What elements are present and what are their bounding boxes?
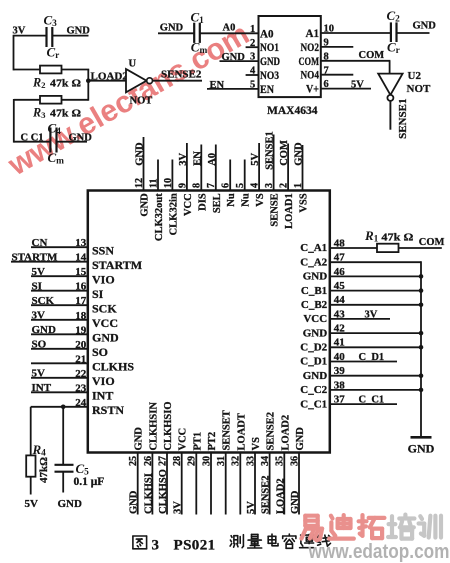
svg-text:GND: GND — [160, 22, 184, 33]
pin 37 wire C_C1 — [330, 403, 397, 405]
svg-text:24: 24 — [75, 397, 87, 409]
svg-text:SCK: SCK — [32, 295, 55, 307]
pin 8 wire — [200, 145, 202, 192]
svg-text:U2: U2 — [408, 70, 422, 82]
svg-text:3V: 3V — [178, 153, 189, 166]
svg-text:INT: INT — [32, 382, 52, 394]
wire A1 — [321, 32, 391, 34]
svg-text:5V: 5V — [246, 501, 257, 514]
pin 22 wire — [31, 377, 88, 379]
svg-text:12: 12 — [134, 178, 145, 188]
IC U3 MAX4634 — [259, 16, 321, 97]
svg-text:C C1: C C1 — [21, 133, 44, 144]
pin 16 wire — [31, 290, 88, 292]
wire — [62, 69, 90, 71]
svg-text:SENSE2: SENSE2 — [261, 475, 272, 514]
svg-text:C_D1: C_D1 — [359, 352, 385, 363]
svg-text:5V: 5V — [32, 368, 46, 380]
pin 2 wire — [287, 144, 289, 192]
svg-text:3: 3 — [264, 183, 275, 188]
svg-text:SENSE2: SENSE2 — [266, 412, 277, 451]
pin 4 NO3 — [246, 74, 259, 76]
svg-text:C5: C5 — [76, 461, 90, 478]
svg-text:15: 15 — [75, 266, 87, 278]
svg-text:C1: C1 — [191, 10, 205, 27]
svg-text:Nu: Nu — [241, 193, 252, 207]
wire COM — [321, 60, 391, 62]
pin 15 wire — [31, 275, 88, 277]
caption 图3 PS021 — [133, 536, 216, 554]
svg-text:GND: GND — [32, 324, 57, 336]
wire — [14, 69, 41, 71]
svg-text:VCC: VCC — [303, 313, 327, 325]
svg-text:SO: SO — [32, 339, 47, 351]
svg-text:GND: GND — [260, 56, 280, 68]
svg-text:C_C1: C_C1 — [359, 395, 385, 406]
svg-text:PT1: PT1 — [192, 432, 203, 451]
svg-text:SO: SO — [92, 345, 108, 359]
svg-text:GND: GND — [294, 142, 305, 166]
svg-text:CN: CN — [32, 237, 48, 249]
pin 6 wire — [229, 160, 231, 192]
pin 25 wire — [137, 452, 139, 515]
svg-text:C3: C3 — [44, 13, 58, 30]
svg-text:SEL: SEL — [212, 193, 223, 213]
junction — [419, 274, 424, 279]
pin 24 wire — [31, 406, 88, 408]
svg-text:PT2: PT2 — [207, 432, 218, 451]
pin 3 wire — [273, 135, 275, 192]
pin 10 wire — [171, 160, 173, 192]
logo 易迪拓培训 — [301, 515, 441, 541]
wire A0 — [200, 32, 259, 34]
pin 34 wire — [269, 452, 271, 515]
pin 21 wire — [31, 362, 88, 364]
svg-text:28: 28 — [172, 456, 183, 466]
pin 14 wire — [11, 261, 88, 263]
svg-text:34: 34 — [260, 456, 271, 466]
pin 39 wire — [330, 375, 421, 377]
svg-text:NO2: NO2 — [301, 42, 320, 54]
pin 27 wire — [166, 452, 168, 515]
pin 9 wire — [186, 143, 188, 191]
pin 2 NO1 — [246, 46, 259, 48]
resistor R4 47k — [26, 442, 50, 483]
svg-text:C_C1: C_C1 — [300, 398, 327, 410]
capacitor C4 — [48, 121, 65, 167]
wire — [158, 32, 194, 34]
svg-text:GND: GND — [303, 327, 328, 339]
svg-text:C_B2: C_B2 — [301, 299, 328, 311]
svg-text:18: 18 — [75, 310, 87, 322]
pin 7 NO4 stub — [321, 74, 354, 76]
svg-text:R2: R2 — [32, 75, 46, 90]
svg-text:23: 23 — [75, 382, 87, 394]
svg-text:GND: GND — [295, 427, 306, 451]
svg-text:A0: A0 — [260, 28, 274, 40]
svg-text:C_C2: C_C2 — [300, 384, 327, 396]
svg-text:C_D2: C_D2 — [300, 342, 327, 354]
wire SENSE2 — [153, 80, 203, 82]
pin 32 wire — [239, 452, 241, 515]
svg-text:Cr: Cr — [387, 39, 400, 56]
svg-text:CLK32in: CLK32in — [168, 193, 179, 235]
svg-text:16: 16 — [75, 281, 87, 293]
capacitor C3 — [44, 13, 60, 61]
svg-text:C_B1: C_B1 — [301, 285, 327, 297]
svg-text:GND: GND — [129, 490, 140, 514]
svg-text:22: 22 — [75, 368, 87, 380]
svg-text:31: 31 — [216, 456, 227, 466]
svg-text:3: 3 — [152, 538, 160, 554]
svg-text:COM: COM — [299, 56, 320, 68]
svg-text:C_A2: C_A2 — [300, 256, 327, 268]
pin 20 wire — [31, 348, 88, 350]
svg-text:3V: 3V — [173, 501, 184, 514]
pin 31 wire — [225, 452, 227, 515]
svg-text:STARTM: STARTM — [92, 258, 142, 272]
wire — [13, 99, 15, 143]
svg-text:VSS: VSS — [299, 193, 310, 212]
svg-text:GND: GND — [92, 331, 119, 345]
svg-text:CLK32out: CLK32out — [154, 193, 165, 241]
pin 48 wire — [330, 247, 377, 249]
pin 35 wire — [283, 452, 285, 515]
svg-text:GND: GND — [303, 370, 328, 382]
svg-text:5V: 5V — [250, 153, 261, 166]
svg-text:LOADT: LOADT — [236, 413, 247, 450]
wire — [13, 35, 15, 71]
svg-text:VS: VS — [251, 437, 262, 451]
svg-text:2: 2 — [278, 183, 289, 188]
svg-text:14: 14 — [75, 252, 87, 264]
svg-text:27: 27 — [157, 456, 168, 466]
bus wire — [420, 261, 422, 437]
pin 1 wire — [302, 145, 304, 191]
pin 12 wire — [143, 137, 145, 191]
pin 36 wire — [298, 452, 300, 515]
pin 13 wire — [31, 246, 88, 248]
pin 40 wire C_D1 — [330, 361, 397, 363]
svg-text:47kΩ: 47kΩ — [38, 457, 50, 483]
svg-text:www.edatop.com: www.edatop.com — [308, 541, 450, 563]
svg-text:33: 33 — [245, 456, 256, 466]
svg-text:R4: R4 — [32, 442, 47, 459]
capacitor C5 0.1uF — [55, 461, 105, 488]
junction — [419, 373, 424, 378]
wire — [14, 141, 51, 143]
pin 18 wire — [31, 319, 88, 321]
svg-text:C_D1: C_D1 — [300, 356, 327, 368]
svg-text:V+: V+ — [306, 84, 319, 96]
svg-text:GND: GND — [413, 21, 437, 32]
svg-text:Cr: Cr — [47, 45, 60, 62]
svg-text:CLKHS: CLKHS — [92, 360, 134, 374]
svg-text:32: 32 — [231, 456, 242, 466]
capacitor C2 — [387, 8, 401, 56]
svg-text:SENSE: SENSE — [270, 193, 281, 226]
wire — [62, 472, 64, 493]
pin 42 wire — [330, 332, 421, 334]
svg-text:A0: A0 — [223, 22, 236, 33]
svg-text:NOT: NOT — [407, 83, 432, 95]
svg-text:SENSE2: SENSE2 — [161, 68, 202, 80]
pin 7 wire — [215, 145, 217, 192]
resistor R1 47k — [364, 228, 414, 252]
wire COM — [399, 247, 442, 249]
svg-text:CLKHSI: CLKHSI — [143, 473, 154, 514]
pin 5 wire — [244, 160, 246, 192]
junction — [419, 288, 424, 293]
svg-text:1: 1 — [250, 24, 255, 35]
svg-text:PS021: PS021 — [174, 538, 216, 554]
svg-text:RSTN: RSTN — [92, 403, 124, 417]
junction — [419, 345, 424, 350]
pin 17 wire — [31, 304, 88, 306]
svg-text:4: 4 — [250, 66, 256, 77]
svg-text:LOAD1: LOAD1 — [284, 193, 295, 229]
wire — [57, 141, 88, 143]
svg-text:SCK: SCK — [92, 302, 117, 316]
pin 11 wire — [157, 160, 159, 192]
wire — [14, 99, 40, 101]
svg-text:NO4: NO4 — [301, 70, 320, 82]
svg-text:U: U — [129, 58, 137, 69]
svg-text:GND: GND — [135, 142, 146, 166]
svg-text:8: 8 — [192, 183, 203, 188]
pin 26 wire — [151, 452, 153, 515]
svg-text:NO1: NO1 — [260, 42, 279, 54]
svg-text:VS: VS — [255, 193, 266, 207]
svg-text:5V: 5V — [25, 498, 39, 510]
svg-text:47k Ω: 47k Ω — [50, 77, 81, 89]
svg-text:SI: SI — [32, 280, 42, 292]
pin 41 wire — [330, 346, 421, 348]
junction — [61, 405, 66, 410]
svg-text:SENSET: SENSET — [222, 410, 233, 450]
svg-text:47k Ω: 47k Ω — [50, 108, 81, 120]
svg-text:6: 6 — [221, 183, 232, 188]
svg-text:21: 21 — [75, 353, 86, 365]
svg-text:COM: COM — [419, 237, 445, 248]
svg-text:LOAD2: LOAD2 — [91, 71, 129, 83]
svg-text:GND: GND — [69, 133, 93, 144]
svg-text:20: 20 — [75, 339, 87, 351]
svg-text:STARTM: STARTM — [12, 251, 58, 263]
svg-text:MAX4634: MAX4634 — [267, 105, 318, 117]
svg-text:10: 10 — [163, 178, 174, 188]
wire SENSE1 — [389, 101, 391, 130]
svg-text:7: 7 — [206, 183, 217, 188]
svg-text:35: 35 — [275, 456, 286, 466]
svg-text:LOAD2: LOAD2 — [275, 478, 286, 514]
svg-text:R1: R1 — [364, 228, 379, 245]
svg-text:LOAD2: LOAD2 — [280, 415, 291, 451]
wire — [62, 99, 89, 101]
svg-text:SSN: SSN — [92, 244, 114, 258]
pin 44 wire — [330, 304, 421, 306]
svg-text:47k Ω: 47k Ω — [381, 232, 413, 244]
wire — [52, 35, 88, 37]
resistor R2 47k — [32, 66, 81, 90]
svg-text:0.1 μF: 0.1 μF — [74, 476, 105, 488]
svg-text:5V: 5V — [351, 79, 364, 90]
svg-text:5: 5 — [250, 80, 255, 91]
svg-text:GND: GND — [290, 490, 301, 514]
svg-text:CLKHSIO: CLKHSIO — [163, 401, 174, 450]
pin 47 wire — [330, 261, 421, 263]
junction — [419, 388, 424, 393]
inverter U2 NOT — [378, 70, 431, 101]
svg-text:CLKHSIN: CLKHSIN — [148, 402, 159, 451]
svg-text:3V: 3V — [365, 309, 378, 320]
svg-text:VIO: VIO — [92, 273, 115, 287]
resistor R3 47k — [32, 96, 81, 120]
svg-text:SI: SI — [92, 287, 104, 301]
wire LOAD2 — [88, 80, 126, 82]
svg-text:DIS: DIS — [197, 193, 208, 211]
svg-text:36: 36 — [289, 456, 300, 466]
ground — [408, 437, 435, 455]
svg-text:SENSE1: SENSE1 — [265, 131, 276, 170]
junction — [419, 331, 424, 336]
svg-text:COM: COM — [279, 140, 290, 166]
svg-text:29: 29 — [187, 456, 198, 466]
pin 43 wire 3V — [330, 318, 390, 320]
svg-text:GND: GND — [408, 442, 435, 456]
wire — [397, 32, 430, 34]
wire — [14, 35, 47, 37]
svg-text:11: 11 — [148, 179, 159, 188]
svg-text:26: 26 — [143, 456, 154, 466]
svg-text:1: 1 — [293, 183, 304, 188]
capacitor C1 — [191, 10, 208, 56]
pin 46 wire — [330, 275, 421, 277]
pin 4 wire — [258, 143, 260, 191]
svg-text:4: 4 — [250, 183, 261, 188]
inverter U1 NOT — [126, 58, 153, 106]
svg-text:INT: INT — [92, 389, 113, 403]
svg-text:3: 3 — [250, 52, 255, 63]
svg-text:GND: GND — [303, 271, 328, 283]
svg-text:EN: EN — [260, 84, 275, 96]
svg-text:EN: EN — [192, 151, 203, 166]
pin 19 wire — [31, 333, 88, 335]
wire — [62, 407, 64, 465]
svg-text:GND: GND — [134, 427, 145, 451]
pin 33 wire — [254, 452, 256, 515]
svg-text:C2: C2 — [387, 8, 401, 25]
svg-text:5: 5 — [235, 183, 246, 188]
svg-text:GND: GND — [67, 25, 91, 36]
svg-text:COM: COM — [359, 50, 385, 61]
wire — [30, 407, 32, 456]
svg-text:Nu: Nu — [226, 193, 237, 207]
IC PS021 body — [88, 191, 330, 453]
svg-text:9: 9 — [177, 183, 188, 188]
svg-text:GND: GND — [58, 498, 83, 510]
pin 3 GND — [220, 60, 259, 62]
svg-text:VCC: VCC — [92, 316, 118, 330]
svg-text:25: 25 — [128, 456, 139, 466]
pin 28 wire — [181, 452, 183, 515]
svg-text:A0: A0 — [207, 153, 218, 166]
svg-text:SENSE1: SENSE1 — [397, 99, 409, 139]
pin 38 wire — [330, 389, 421, 391]
pin 9 NO2 stub — [321, 46, 354, 48]
svg-text:17: 17 — [75, 295, 87, 307]
svg-text:VCC: VCC — [183, 193, 194, 216]
pin 29 wire — [195, 452, 197, 515]
svg-text:19: 19 — [75, 324, 87, 336]
pin 5 EN — [207, 88, 259, 90]
pin 45 wire — [330, 290, 421, 292]
junction — [419, 303, 424, 308]
svg-text:C_A1: C_A1 — [300, 242, 327, 254]
svg-text:13: 13 — [75, 237, 87, 249]
pin 6 V+ 5V — [321, 88, 371, 90]
svg-text:30: 30 — [201, 456, 212, 466]
svg-text:VIO: VIO — [92, 374, 115, 388]
svg-text:R3: R3 — [32, 106, 46, 121]
svg-text:GND: GND — [140, 193, 151, 217]
wire — [30, 477, 32, 495]
svg-text:NO3: NO3 — [260, 70, 279, 82]
svg-text:NOT: NOT — [130, 96, 153, 107]
svg-text:5V: 5V — [32, 266, 46, 278]
svg-text:EN: EN — [210, 80, 225, 91]
svg-text:3V: 3V — [32, 309, 46, 321]
svg-text:A1: A1 — [306, 28, 320, 40]
wire — [87, 70, 89, 101]
svg-text:CLKHSO: CLKHSO — [158, 469, 169, 514]
svg-text:2: 2 — [250, 38, 255, 49]
pin 23 wire — [31, 391, 88, 393]
caption 测量电容连线 — [230, 534, 330, 548]
svg-text:VCC: VCC — [178, 428, 189, 451]
svg-text:GND: GND — [222, 52, 246, 63]
junction — [86, 78, 91, 83]
pin 30 wire — [210, 452, 212, 515]
